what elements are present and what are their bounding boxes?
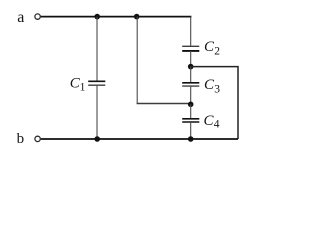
wire: C1 branch vertical upper segment xyxy=(96,17,98,82)
capacitor C3 top plate xyxy=(182,82,199,84)
capacitor C3 bottom plate xyxy=(182,85,199,87)
capacitor C4 top plate xyxy=(182,118,199,120)
node junction dot on bottom rail at C1 branch xyxy=(94,136,100,142)
capacitor C1 bottom plate xyxy=(88,84,105,86)
capacitor C4 bottom plate xyxy=(182,121,199,123)
svg-text:b: b xyxy=(17,131,25,147)
wire: C2 branch vertical from top rail to C2 xyxy=(190,17,192,47)
wire: bypass from node X right and down to bottom rail xyxy=(191,67,238,139)
wire: node Y to C4 xyxy=(190,104,192,119)
svg-text:4: 4 xyxy=(214,119,220,131)
wire: bottom rail from terminal b to right side xyxy=(41,138,238,140)
terminal b (open circle) xyxy=(35,136,40,141)
node Y junction dot between C3 and C4 xyxy=(188,102,194,108)
node Z junction dot on bottom rail xyxy=(188,136,194,142)
wire: top rail from terminal a to C2 branch xyxy=(41,16,192,18)
terminal a (open circle) xyxy=(35,14,40,19)
node X junction dot between C2 and C3 xyxy=(188,64,194,70)
wire: C4 bottom to bottom rail node Z xyxy=(190,122,192,139)
capacitor C1 top plate xyxy=(88,80,105,82)
wire: segment C2 bottom to node X xyxy=(190,51,192,67)
svg-text:3: 3 xyxy=(214,83,220,95)
wire: node X to C3 xyxy=(190,67,192,83)
capacitor C2 top plate xyxy=(182,45,199,47)
svg-text:a: a xyxy=(17,9,24,26)
svg-text:2: 2 xyxy=(214,45,220,57)
node junction dot on top rail at C1 branch xyxy=(94,14,100,20)
wire: C1 branch vertical lower segment xyxy=(96,85,98,139)
capacitor C2 bottom plate xyxy=(182,50,199,52)
wire: C3 bottom to node Y xyxy=(190,86,192,104)
wire: middle branch horizontal to node between C3 and C4 xyxy=(137,103,191,105)
wire: middle branch vertical from top rail xyxy=(136,17,138,104)
node junction dot on top rail at middle branch xyxy=(134,14,140,20)
svg-text:1: 1 xyxy=(80,81,86,93)
